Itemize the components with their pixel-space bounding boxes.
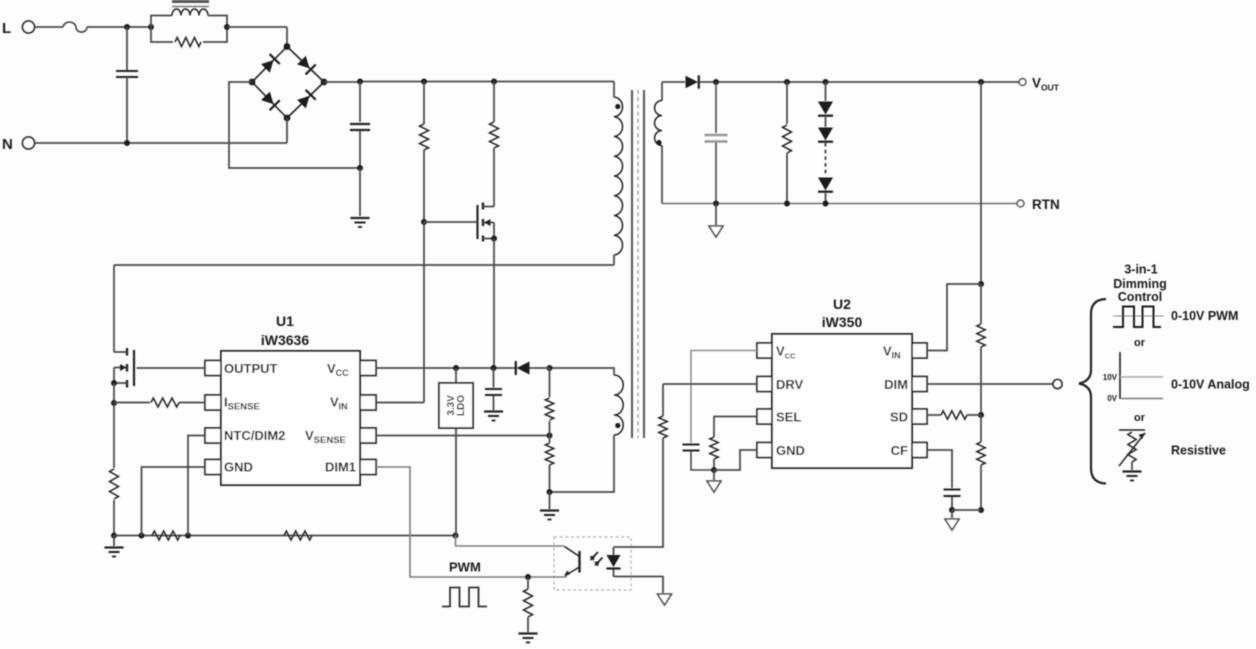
- svg-text:SD: SD: [890, 410, 908, 425]
- svg-text:CF: CF: [891, 443, 908, 458]
- svg-text:10V: 10V: [1103, 373, 1118, 382]
- svg-text:or: or: [1134, 337, 1146, 349]
- svg-text:DIM: DIM: [884, 377, 908, 392]
- svg-text:3-in-1: 3-in-1: [1124, 263, 1157, 277]
- svg-text:Resistive: Resistive: [1171, 444, 1226, 458]
- svg-text:U2: U2: [833, 296, 851, 312]
- svg-text:iW350: iW350: [822, 314, 863, 330]
- svg-text:Control: Control: [1118, 290, 1162, 304]
- svg-text:Dimming: Dimming: [1113, 277, 1166, 291]
- svg-text:GND: GND: [224, 460, 253, 475]
- svg-text:L: L: [2, 20, 11, 37]
- svg-text:iW3636: iW3636: [261, 332, 309, 348]
- svg-text:0-10V PWM: 0-10V PWM: [1171, 309, 1238, 323]
- svg-text:N: N: [2, 136, 13, 153]
- svg-text:OUTPUT: OUTPUT: [224, 361, 278, 376]
- svg-text:DIM1: DIM1: [325, 460, 356, 475]
- svg-text:0V: 0V: [1107, 394, 1117, 403]
- svg-text:0-10V Analog: 0-10V Analog: [1171, 378, 1250, 392]
- svg-text:GND: GND: [776, 443, 805, 458]
- svg-text:NTC/DIM2: NTC/DIM2: [224, 428, 285, 443]
- svg-text:SEL: SEL: [776, 410, 801, 425]
- svg-text:RTN: RTN: [1032, 197, 1060, 212]
- svg-text:U1: U1: [276, 313, 294, 329]
- svg-text:DRV: DRV: [776, 377, 804, 392]
- svg-text:or: or: [1134, 412, 1146, 424]
- svg-text:PWM: PWM: [449, 560, 481, 575]
- svg-text:3.3VLDO: 3.3VLDO: [446, 395, 467, 416]
